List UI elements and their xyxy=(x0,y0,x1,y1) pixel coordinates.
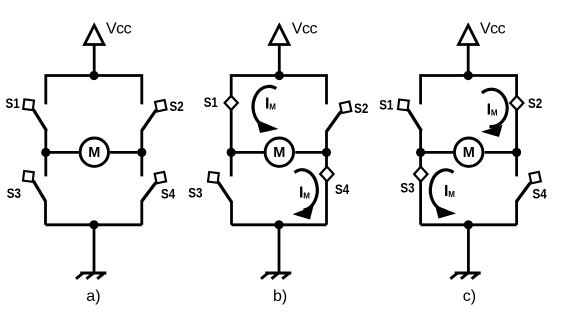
svg-text:S1: S1 xyxy=(204,94,218,110)
wire S4 lower segment a xyxy=(140,201,143,225)
current arrow IM top-left b xyxy=(253,86,278,133)
svg-text:S4: S4 xyxy=(533,186,547,202)
node left mid junction c xyxy=(416,148,425,157)
svg-text:S4: S4 xyxy=(161,185,175,201)
node right mid junction a xyxy=(137,148,146,157)
wire top rail a xyxy=(46,76,142,105)
svg-text:M: M xyxy=(303,192,310,201)
wire right mid rail c xyxy=(515,152,518,176)
node right mid junction c xyxy=(512,148,521,157)
ground symbol b xyxy=(261,273,291,279)
wire right mid rail a xyxy=(140,152,143,176)
node top junction a xyxy=(89,71,98,80)
wire motor left a xyxy=(46,151,79,154)
wire bottom rail a xyxy=(46,223,142,226)
wire S2 blade lower segment b xyxy=(325,131,328,153)
wire top rail c xyxy=(421,76,517,153)
wire motor right c xyxy=(485,151,517,154)
node ground junction c xyxy=(464,220,473,229)
wire left mid rail a xyxy=(44,152,47,176)
node top junction c xyxy=(464,71,473,80)
current arrow IM bottom-right b xyxy=(293,170,318,220)
switch S4 (open) a xyxy=(142,172,166,201)
ground symbol c xyxy=(450,273,480,279)
svg-text:Vcc: Vcc xyxy=(292,21,318,38)
wire S4 lower segment c xyxy=(515,201,518,225)
wire ground stem b xyxy=(278,225,281,273)
wire S2 blade lower segment a xyxy=(140,130,143,152)
current arrow IM bottom-left c xyxy=(430,170,456,219)
Vcc supply symbol (triangle) a xyxy=(85,25,104,44)
svg-text:M: M xyxy=(88,145,100,161)
motor M a xyxy=(80,138,108,166)
wire Vcc stem a xyxy=(93,45,96,76)
Vcc supply symbol (triangle) b xyxy=(270,25,289,44)
svg-text:Vcc: Vcc xyxy=(106,21,132,38)
svg-text:c): c) xyxy=(463,288,476,305)
svg-text:S1: S1 xyxy=(379,96,393,112)
wire S3 lower segment b xyxy=(230,202,233,225)
wire Vcc stem c xyxy=(467,45,470,76)
svg-text:S3: S3 xyxy=(400,180,414,196)
wire ground stem a xyxy=(93,225,96,273)
wire left mid rail b xyxy=(230,152,233,176)
wire bottom rail b xyxy=(232,223,327,226)
switch S2 (open) b xyxy=(327,102,351,131)
node ground junction b xyxy=(274,220,283,229)
node left mid junction b xyxy=(227,148,236,157)
wire S3 lower segment a xyxy=(44,201,47,225)
wire bottom rail c xyxy=(421,223,517,226)
svg-text:a): a) xyxy=(86,288,100,305)
svg-text:M: M xyxy=(491,109,498,118)
Vcc supply symbol (triangle) c xyxy=(459,25,478,44)
svg-text:Vcc: Vcc xyxy=(480,21,506,38)
switch S3 (open) b xyxy=(208,172,231,202)
svg-text:M: M xyxy=(269,102,276,111)
wire left rail S3 closed c xyxy=(419,152,422,224)
switch S1 (closed, diamond) b xyxy=(225,96,238,110)
current arrow IM top-right c xyxy=(481,89,507,137)
wire motor right b xyxy=(295,151,326,154)
svg-text:S2: S2 xyxy=(170,98,184,114)
node left mid junction a xyxy=(41,148,50,157)
switch S2 (closed, diamond) c xyxy=(510,96,523,110)
svg-text:M: M xyxy=(463,145,475,161)
wire top rail b xyxy=(231,76,326,153)
switch S1 (open) c xyxy=(398,99,421,129)
node top junction b xyxy=(275,71,284,80)
svg-text:S1: S1 xyxy=(6,95,20,111)
ground symbol a xyxy=(76,273,106,279)
wire ground stem c xyxy=(467,225,470,273)
svg-text:S4: S4 xyxy=(335,181,349,197)
wire motor left b xyxy=(231,151,264,154)
switch S4 (open) c xyxy=(517,172,541,201)
switch S2 (open) a xyxy=(142,100,167,130)
svg-text:M: M xyxy=(273,145,285,161)
switch S3 (open) a xyxy=(23,171,45,201)
svg-text:S3: S3 xyxy=(188,185,202,201)
motor M c xyxy=(455,138,483,166)
wire S1 blade lower segment c xyxy=(419,130,422,153)
svg-text:b): b) xyxy=(273,288,287,305)
node ground junction a xyxy=(89,220,98,229)
motor M b xyxy=(265,138,293,166)
switch S1 (open) a xyxy=(23,99,46,130)
svg-text:S3: S3 xyxy=(7,185,21,201)
wire S1 blade lower segment a xyxy=(44,130,47,153)
switch S4 (closed, diamond) b xyxy=(320,167,333,182)
wire motor right a xyxy=(110,151,142,154)
switch S3 (closed, diamond) c xyxy=(414,167,427,182)
svg-text:S2: S2 xyxy=(528,95,542,111)
svg-text:M: M xyxy=(448,190,455,199)
wire motor left c xyxy=(421,151,454,154)
node right mid junction b xyxy=(322,148,331,157)
wire Vcc stem b xyxy=(278,45,281,76)
svg-text:S2: S2 xyxy=(354,100,368,116)
wire right rail S4 closed b xyxy=(325,152,328,224)
